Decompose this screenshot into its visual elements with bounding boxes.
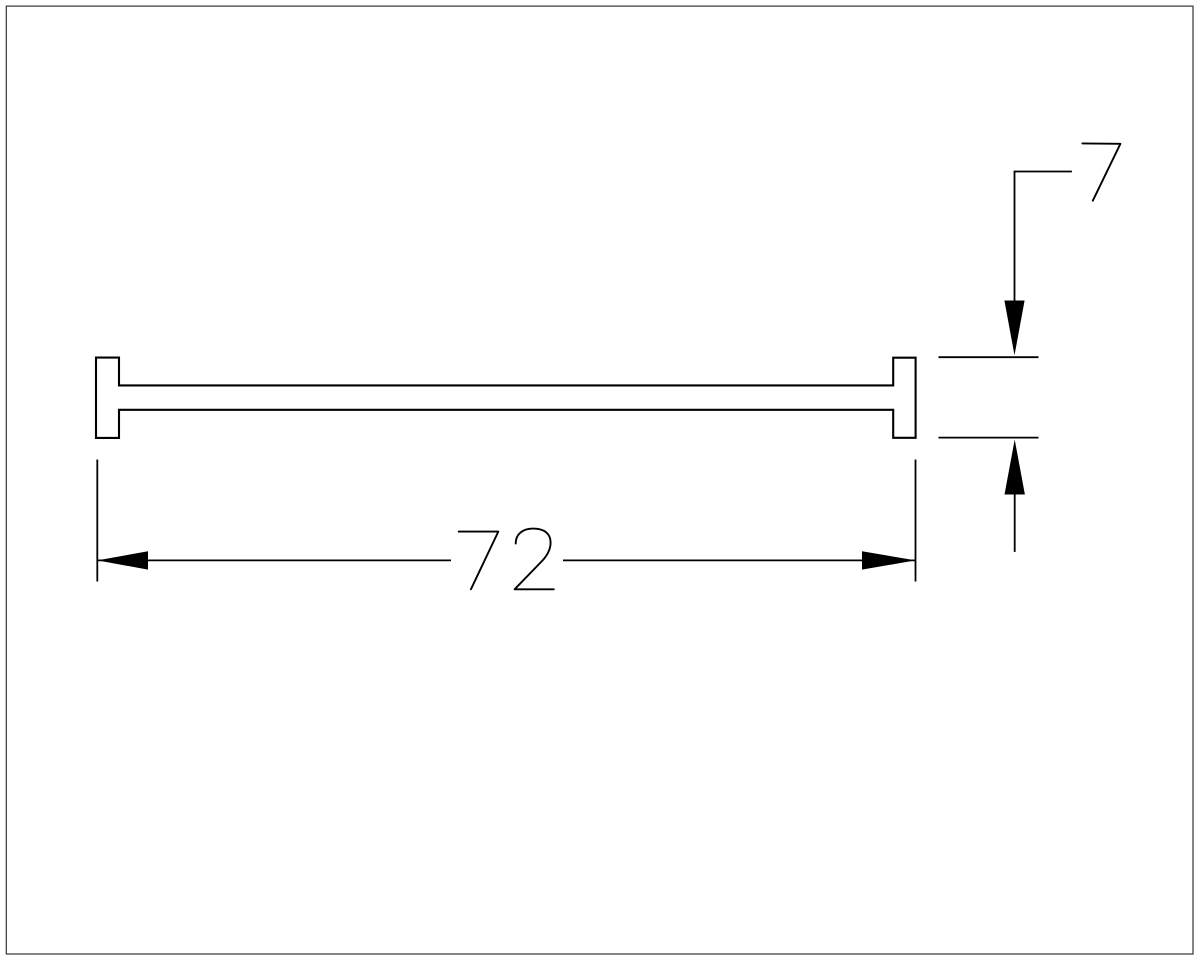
arrowhead right (dim 72) xyxy=(862,551,916,569)
dimension line 72 left segment xyxy=(97,559,451,561)
extension line right (dim 72) xyxy=(915,460,917,582)
extension line left (dim 72) xyxy=(96,460,98,582)
dimension text 72 xyxy=(459,529,554,590)
arrowhead up (dim 7) xyxy=(1005,440,1025,495)
dimension line 72 right segment xyxy=(563,559,916,561)
leader line (dim 7) xyxy=(1015,172,1072,302)
tail line below up arrow (dim 7) xyxy=(1014,495,1016,552)
extension line bottom (dim 7) xyxy=(939,437,1039,439)
arrowhead down (dim 7) xyxy=(1004,301,1024,356)
dimension text 7 xyxy=(1082,143,1120,200)
part outline: bar with end caps xyxy=(96,358,916,438)
arrowhead left (dim 72) xyxy=(97,551,148,569)
extension line top (dim 7) xyxy=(939,356,1039,358)
